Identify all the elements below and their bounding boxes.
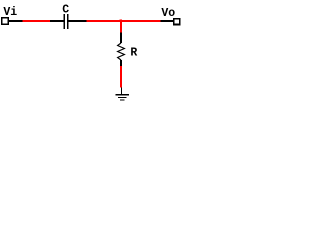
svg-text:Vo: Vo (161, 7, 175, 20)
svg-text:R: R (130, 46, 137, 59)
svg-text:Vi: Vi (3, 6, 17, 19)
svg-text:C: C (62, 3, 69, 16)
